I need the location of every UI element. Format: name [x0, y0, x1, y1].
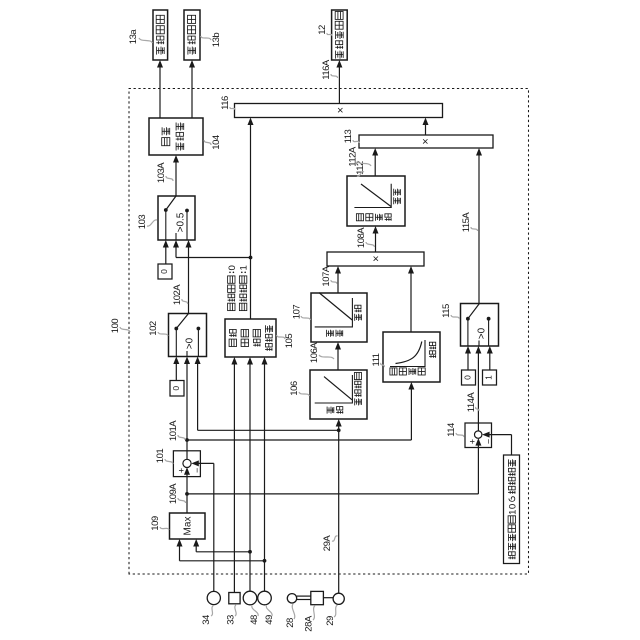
- svg-text:13a: 13a: [128, 29, 139, 45]
- svg-text:+: +: [177, 468, 187, 473]
- svg-text:28: 28: [285, 618, 296, 628]
- svg-text:0: 0: [507, 504, 518, 509]
- svg-text:115A: 115A: [461, 212, 472, 233]
- svg-text:103: 103: [137, 215, 148, 230]
- svg-text:>0.5: >0.5: [176, 212, 187, 232]
- svg-text:106A: 106A: [309, 342, 320, 363]
- svg-text:107A: 107A: [321, 265, 332, 286]
- svg-text:48: 48: [249, 615, 260, 625]
- svg-text:29A: 29A: [322, 535, 333, 552]
- svg-text:100: 100: [110, 319, 121, 334]
- svg-text:114A: 114A: [466, 392, 477, 413]
- svg-text:103A: 103A: [156, 162, 167, 183]
- svg-text:1: 1: [484, 375, 494, 380]
- svg-text:28A: 28A: [304, 615, 315, 632]
- svg-text:×: ×: [335, 107, 347, 113]
- svg-text:112A: 112A: [348, 146, 359, 167]
- svg-text:101A: 101A: [168, 420, 179, 441]
- svg-text:Max: Max: [183, 517, 194, 536]
- svg-text:116: 116: [220, 96, 231, 110]
- svg-text:0: 0: [171, 386, 181, 391]
- svg-text:−: −: [484, 439, 494, 444]
- svg-text:0: 0: [227, 265, 238, 270]
- svg-text:109A: 109A: [168, 483, 179, 504]
- svg-text:113: 113: [343, 129, 354, 143]
- svg-text:102: 102: [148, 321, 159, 336]
- svg-text:105: 105: [284, 334, 295, 349]
- svg-text:34: 34: [201, 615, 212, 625]
- svg-text:116A: 116A: [321, 59, 332, 80]
- svg-text:13b: 13b: [211, 33, 222, 48]
- svg-text:1: 1: [507, 510, 518, 515]
- svg-text:12: 12: [317, 25, 328, 35]
- svg-text:101: 101: [155, 449, 166, 464]
- svg-text:114: 114: [446, 423, 457, 437]
- svg-text:×: ×: [370, 255, 382, 261]
- svg-text:>0: >0: [476, 327, 487, 339]
- svg-text:108A: 108A: [356, 227, 367, 248]
- svg-text:49: 49: [264, 615, 275, 625]
- svg-text:0: 0: [463, 375, 473, 380]
- svg-text:0: 0: [159, 269, 169, 274]
- svg-text:109: 109: [150, 516, 161, 531]
- svg-text:−: −: [192, 468, 202, 473]
- svg-text:115: 115: [441, 304, 452, 318]
- svg-text:+: +: [467, 439, 477, 444]
- svg-text:1: 1: [239, 265, 250, 270]
- svg-text:102A: 102A: [172, 284, 183, 305]
- svg-text:104: 104: [211, 135, 222, 150]
- svg-text:33: 33: [226, 615, 237, 625]
- svg-text:106: 106: [289, 381, 300, 396]
- svg-text:×: ×: [420, 138, 432, 144]
- svg-text:>0: >0: [184, 337, 195, 349]
